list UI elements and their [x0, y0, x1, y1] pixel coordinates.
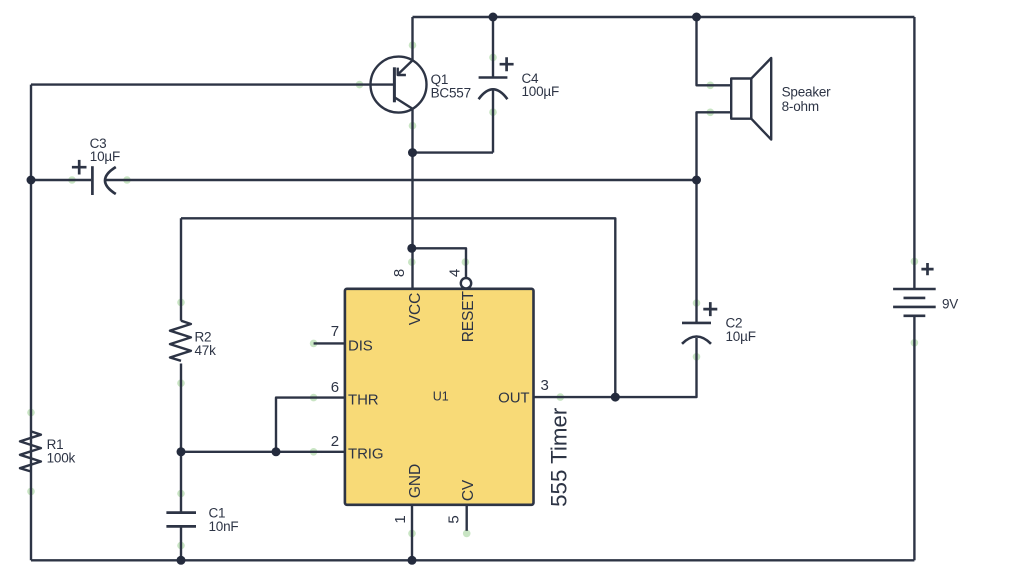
- capacitor C4 100uF: [479, 17, 514, 153]
- node: C4 / top rail: [489, 13, 498, 22]
- node: C3 + terminal: [68, 176, 76, 184]
- speaker SP1: [731, 58, 771, 140]
- wire: R2 top lead: [180, 218, 182, 320]
- wire: speaker bottom lead: [697, 112, 732, 180]
- svg-text:BC557: BC557: [431, 86, 471, 101]
- node: battery - terminal: [911, 339, 919, 347]
- svg-text:CV: CV: [460, 479, 477, 501]
- svg-text:4: 4: [447, 269, 464, 277]
- wire: GND pin 1 to bottom rail: [411, 505, 413, 561]
- node: C2 - terminal: [693, 353, 701, 361]
- svg-text:2: 2: [331, 433, 339, 450]
- svg-text:OUT: OUT: [498, 390, 529, 407]
- svg-text:TRIG: TRIG: [348, 446, 383, 463]
- capacitor C2 10uF: [682, 180, 717, 344]
- capacitor C3 10uF: [72, 160, 116, 195]
- svg-text:555 Timer: 555 Timer: [547, 407, 572, 507]
- wire: DIS pin 7 stub: [314, 342, 345, 344]
- svg-text:U1: U1: [433, 390, 449, 404]
- pin 4 RESET inversion bubble: [461, 278, 471, 288]
- svg-text:VCC: VCC: [407, 293, 424, 325]
- node: OUT / C2 / feedback: [611, 393, 620, 402]
- wire: C1 top lead: [180, 452, 182, 512]
- node: pin 3 OUT terminal: [557, 393, 565, 401]
- transistor Q1 BC557: [371, 57, 427, 113]
- node: speaker / top rail: [692, 13, 701, 22]
- svg-text:GND: GND: [407, 464, 424, 498]
- svg-text:7: 7: [331, 323, 339, 340]
- node: R2 / TRIG / C1: [177, 447, 186, 456]
- svg-text:10nF: 10nF: [209, 519, 239, 534]
- node: pin 2 TRIG terminal: [310, 448, 318, 456]
- svg-text:8-ohm: 8-ohm: [782, 99, 819, 114]
- node: R2 bottom terminal: [177, 379, 185, 387]
- node: pin 1 GND terminal: [408, 530, 416, 538]
- node: pin 7 DIS terminal: [310, 340, 318, 348]
- node: Q1 collector terminal: [409, 122, 417, 130]
- wire: C1 bottom lead: [180, 528, 182, 561]
- svg-text:10µF: 10µF: [90, 149, 120, 164]
- svg-text:8: 8: [391, 269, 408, 277]
- node: Q1 emitter terminal: [409, 41, 417, 49]
- svg-text:100µF: 100µF: [522, 84, 560, 99]
- node: C3 / left rail: [27, 176, 36, 185]
- wire: TRIG node to pin 2: [181, 451, 345, 453]
- wire: left vertical rail: [30, 85, 32, 561]
- svg-text:10µF: 10µF: [726, 329, 756, 344]
- node: R1 top terminal: [27, 409, 35, 417]
- node: pin 8 VCC terminal: [408, 258, 416, 266]
- svg-text:RESET: RESET: [460, 290, 477, 342]
- svg-text:THR: THR: [348, 392, 379, 409]
- svg-text:Speaker: Speaker: [782, 85, 832, 100]
- node: VCC / RESET: [407, 244, 416, 253]
- wire: R2 bottom to TRIG node: [180, 364, 182, 452]
- node: speaker - terminal: [707, 109, 715, 117]
- node: pin 4 RESET terminal: [462, 258, 470, 266]
- svg-text:5: 5: [446, 515, 463, 523]
- node: C1 / bottom rail: [177, 556, 186, 565]
- node: C2 + terminal: [693, 299, 701, 307]
- node: C1 top terminal: [177, 490, 185, 498]
- wire: C3 right to speaker/C2 node: [106, 179, 697, 181]
- node: Q1 base terminal: [356, 81, 364, 89]
- node: R2 top terminal: [177, 299, 185, 307]
- node: speaker / C3 / C2: [692, 176, 701, 185]
- wire: bottom rail: [31, 559, 914, 561]
- wire: CV pin 5 stub: [466, 505, 468, 531]
- node: GND / bottom rail: [408, 556, 417, 565]
- wire: top rail: [413, 16, 915, 18]
- wire: Q1 emitter up to top rail: [411, 17, 413, 60]
- wire: C2 bottom lead to OUT junction: [615, 338, 696, 397]
- node: Q1 collector / C4: [408, 148, 417, 157]
- op-amp U1: 555 timer IC body: [345, 289, 534, 505]
- wire: speaker top lead: [697, 17, 732, 85]
- IC pin names and numbers: [331, 269, 549, 524]
- node: R1 bottom terminal: [27, 488, 35, 496]
- svg-text:DIS: DIS: [348, 337, 373, 354]
- resistor R1 100k: [20, 431, 41, 471]
- svg-text:1: 1: [392, 515, 409, 523]
- node: pin 5 CV terminal: [463, 530, 471, 538]
- node: C1 bottom terminal: [177, 542, 185, 550]
- svg-text:3: 3: [541, 377, 549, 394]
- svg-text:6: 6: [331, 379, 339, 396]
- node: pin 6 THR terminal: [310, 394, 318, 402]
- wire: C3 left lead from left rail: [31, 179, 91, 181]
- wire: OUT pin 3 to junction: [534, 396, 616, 398]
- wire: base wire to Q1: [31, 83, 371, 85]
- svg-text:100k: 100k: [47, 451, 76, 466]
- node: C3 - terminal: [123, 176, 131, 184]
- node: C4 - terminal: [489, 108, 497, 116]
- wire: VCC node to RESET pin 4: [412, 248, 466, 278]
- wire: Q1 collector down to pin 8 VCC: [411, 109, 413, 289]
- capacitor C1 10nF: [166, 513, 196, 527]
- wire: right rail bottom (battery - to bottom rail): [913, 316, 915, 561]
- battery V1 9V: [893, 263, 936, 316]
- node: speaker + terminal: [707, 82, 715, 90]
- wire: right rail top (to battery +): [913, 17, 915, 289]
- resistor R2 47k: [170, 321, 191, 361]
- node: battery + terminal: [911, 258, 919, 266]
- wire: collector node to C4 bottom: [413, 151, 494, 153]
- node: C4 + terminal: [489, 54, 497, 62]
- wire: THR branch to pin 6: [276, 398, 345, 452]
- svg-text:47k: 47k: [195, 343, 217, 358]
- terminal markers (green): [27, 41, 918, 549]
- node: THR / TRIG: [272, 447, 281, 456]
- wire: OUT feedback rail to R2 top: [181, 218, 615, 397]
- svg-text:9V: 9V: [942, 297, 958, 312]
